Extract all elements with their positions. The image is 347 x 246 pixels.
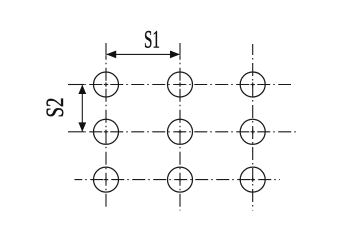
svg-text:S1: S1 — [144, 25, 160, 54]
svg-text:S2: S2 — [40, 98, 69, 118]
